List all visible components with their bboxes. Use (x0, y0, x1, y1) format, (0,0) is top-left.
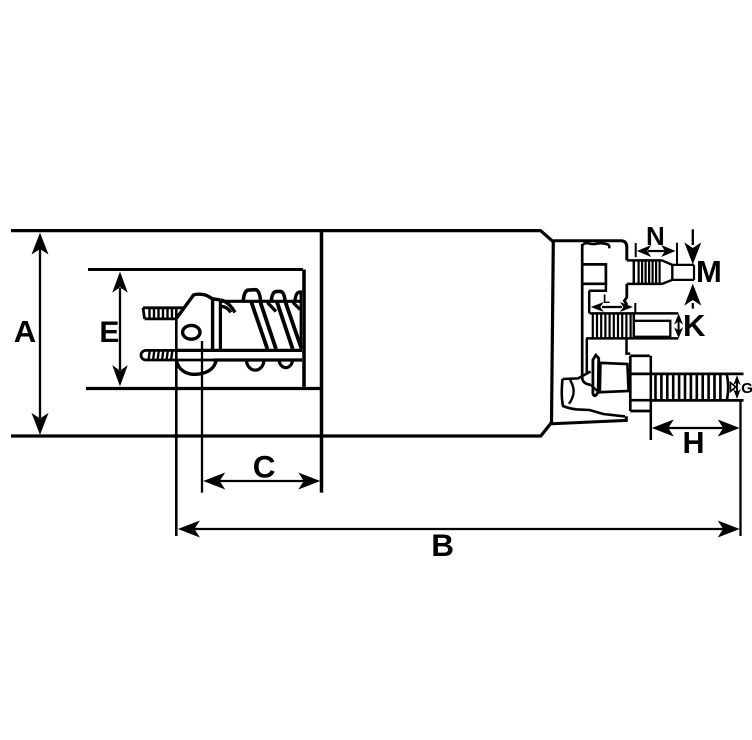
inner cutaway box bottom line (86, 387, 322, 390)
nut right edge / H extension (650, 356, 653, 440)
return spring arch 1 (243, 290, 260, 302)
end cap outline (552, 241, 627, 424)
end cap inner top edge (583, 243, 610, 245)
contact plate (600, 363, 629, 392)
dimension K arrow (674, 314, 683, 339)
dimension G arrow (733, 375, 741, 399)
L tick (634, 303, 636, 313)
dimension L arrow (591, 302, 633, 312)
svg-text:B: B (431, 527, 454, 563)
return spring top line (221, 300, 301, 303)
terminal 30 stud root (627, 260, 662, 284)
cap lower lobe (562, 372, 625, 417)
dimension C arrow (203, 473, 320, 490)
nut step (627, 339, 631, 354)
svg-text:L: L (603, 294, 610, 306)
svg-text:A: A (14, 314, 36, 349)
spring lower loop 1 (247, 360, 264, 370)
terminal rod bottom (threaded) (141, 350, 214, 360)
push rod collar (219, 300, 222, 349)
inner cutaway box right edge (302, 270, 306, 389)
svg-text:E: E (99, 316, 119, 349)
svg-text:K: K (683, 308, 706, 343)
dimension C left extension line (201, 341, 203, 493)
spring lower loop 2 (279, 360, 292, 368)
dimension A arrow (32, 233, 49, 435)
dimension M arrow upper (684, 229, 701, 264)
dimension M arrow lower (684, 284, 701, 309)
svg-text:C: C (253, 448, 276, 484)
terminal 30 stud tip (672, 265, 694, 280)
end cap recess step (589, 284, 606, 291)
terminal 45 stud threads (650, 374, 744, 401)
dimension B arrow (178, 521, 740, 538)
return spring coil 1 crescent (221, 300, 235, 313)
dimension B left extension line (plunger edge extended) (175, 308, 178, 537)
end cap notch wall (588, 291, 591, 314)
terminal rod top (threaded) (143, 308, 184, 319)
end cap inner top drop (608, 245, 611, 248)
terminal 30 stud threads (639, 261, 660, 284)
terminal 50 rod (634, 321, 671, 337)
return spring strand 1 (251, 302, 276, 349)
section divider line (320, 231, 324, 493)
return spring strand 2 (277, 302, 302, 349)
svg-text:H: H (683, 426, 705, 460)
dimension H arrow (652, 420, 740, 437)
return spring arch 3 (partial) (295, 292, 302, 302)
terminal 30 stud taper (662, 260, 673, 284)
dimension N extension lines (636, 243, 677, 265)
dimension H right extension line (739, 400, 741, 536)
return spring back strand stub (268, 303, 277, 312)
end cap inner left wall (582, 244, 590, 385)
return spring back stub 2 (293, 303, 300, 310)
solenoid body top line (11, 231, 553, 436)
terminal 50 threads (586, 313, 678, 338)
dimension E arrow (112, 272, 128, 387)
dimension N arrow (637, 245, 676, 257)
svg-text:M: M (696, 254, 722, 289)
contact disc (593, 355, 599, 396)
return spring arch 2 (271, 291, 285, 301)
end cap molded recess (583, 264, 606, 283)
plunger shaft bar (176, 350, 302, 360)
plunger body (176, 294, 220, 374)
plunger hole (circle) (183, 325, 200, 339)
inner cutaway box top line (88, 268, 303, 271)
return spring seat edge (300, 292, 302, 349)
svg-text:N: N (646, 221, 665, 251)
svg-text:G: G (741, 380, 752, 397)
end cap rib 2 (586, 339, 589, 374)
nut (630, 356, 650, 411)
